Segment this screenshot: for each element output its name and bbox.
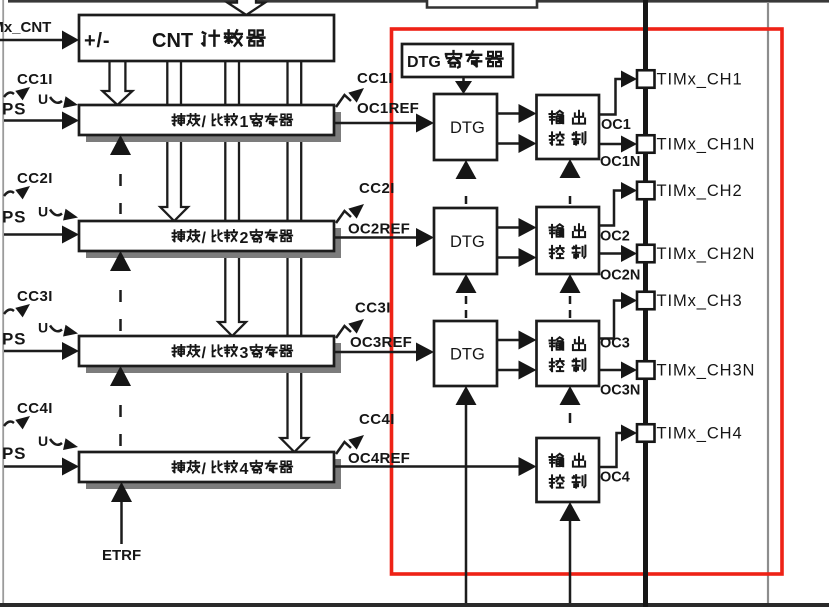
wire PS into register 4 [4, 465, 63, 468]
wire DTG 2 to output control [497, 226, 519, 229]
wire OC4REF register 4 to output control 4 [335, 465, 519, 468]
svg-text:CC3I: CC3I [17, 288, 53, 305]
svg-text:TIMx_CH1: TIMx_CH1 [657, 71, 743, 89]
right page border line [767, 2, 769, 607]
pin TIMx_CH2 [637, 182, 655, 200]
svg-text:/: / [202, 230, 207, 247]
capture/compare register 4 shadow [86, 459, 341, 489]
svg-text:CNT: CNT [152, 30, 193, 52]
U event arrow row 3 [50, 326, 62, 332]
svg-text:OC3N: OC3N [600, 383, 640, 399]
pin TIMx_CH1 [637, 70, 655, 88]
svg-text:CC1I: CC1I [17, 71, 53, 88]
wire DTG 2 to output control [497, 256, 519, 259]
svg-text:U: U [38, 91, 48, 107]
wire DTG 1 to output control [497, 112, 519, 115]
capture/compare register 1 box [79, 105, 334, 135]
wire PS into register 2 [4, 233, 63, 236]
dashed update arrow into register 1 bottom [110, 135, 131, 155]
wire ETRF into register 4 [120, 501, 123, 544]
svg-text:OC2N: OC2N [600, 268, 640, 284]
wire CNT input [0, 39, 63, 42]
svg-text:OC1REF: OC1REF [357, 100, 419, 117]
output control block 4 [537, 438, 600, 502]
svg-text:OC4REF: OC4REF [348, 450, 410, 467]
svg-text:PS: PS [2, 330, 26, 349]
svg-text:OC3: OC3 [600, 336, 630, 352]
svg-text:U: U [38, 433, 48, 449]
svg-text:OC3REF: OC3REF [350, 334, 412, 351]
wire DTG register to DTG 1 [462, 77, 465, 82]
pin TIMx_CH3 [637, 292, 655, 310]
DTG block 1 [434, 94, 497, 160]
dashed control arrow into DTG 2 [456, 274, 477, 293]
wire OC2REF register 2 to DTG [335, 236, 417, 239]
pin TIMx_CH3N [637, 361, 655, 379]
svg-text:PS: PS [2, 208, 26, 227]
bottom crop strip [0, 603, 829, 607]
wire OC to TIMx_CH2N [599, 252, 621, 255]
svg-text:CC1I: CC1I [357, 70, 393, 87]
U event arrow row 2 [50, 210, 62, 216]
svg-text:TIMx_CH2N: TIMx_CH2N [657, 245, 756, 263]
svg-text:TIMx_CH3: TIMx_CH3 [657, 292, 743, 310]
DTG register box [402, 44, 513, 77]
hollow arrow channel 4 from CNT to register 4 [281, 61, 309, 452]
CNT counter box [79, 15, 334, 61]
svg-text:TIMx_CH2: TIMx_CH2 [657, 182, 743, 200]
pin TIMx_CH4 [637, 424, 655, 442]
svg-text:+/-: +/- [84, 30, 110, 52]
wire PS into register 1 [4, 119, 63, 122]
svg-text:CC4I: CC4I [359, 411, 395, 428]
wire DTG 1 to output control [497, 142, 519, 145]
capture/compare register 3 box [79, 336, 334, 366]
wire OC to TIMx_CH3N [599, 369, 621, 372]
cut-off box at top [427, 0, 537, 8]
dashed control arrow into output control 1 [560, 159, 581, 178]
svg-text:/: / [202, 114, 207, 131]
wire PS into register 3 [4, 350, 63, 353]
dashed update arrow into register 3 bottom [110, 366, 131, 386]
zigzag arrow to CC3I (left) [4, 310, 14, 314]
wire DTG 3 to output control [497, 339, 519, 342]
hollow arrow channel 1 from CNT to register 1 [103, 61, 133, 105]
svg-text:2: 2 [240, 230, 249, 247]
output control block 2 [537, 207, 600, 274]
svg-text:DTG: DTG [450, 119, 485, 137]
U event arrow row 1 [50, 97, 62, 103]
output control block 3 [537, 321, 600, 386]
svg-text:CC2I: CC2I [359, 180, 395, 197]
svg-text:DTG: DTG [450, 233, 485, 251]
zigzag arrow register 3 to CC3I [336, 326, 351, 338]
control line into DTG 3 from bottom [456, 386, 477, 405]
capture/compare register 4 box [79, 452, 334, 482]
svg-text:1: 1 [240, 114, 249, 131]
svg-text:U: U [38, 320, 48, 336]
wire OC to TIMx_CH3 [599, 301, 621, 339]
dashed update arrow into register 2 bottom [110, 251, 131, 271]
svg-text:OC1N: OC1N [600, 154, 640, 170]
capture/compare register 2 box [79, 221, 334, 251]
hollow arrow into CNT counter [228, 0, 266, 15]
hollow arrow channel 2 from CNT to register 2 [160, 61, 188, 221]
pin TIMx_CH2N [637, 245, 655, 263]
svg-text:/: / [202, 461, 207, 478]
svg-text:OC1: OC1 [601, 117, 631, 133]
svg-text:U: U [38, 204, 48, 220]
capture/compare register 1 shadow [86, 112, 341, 142]
svg-text:TIMx_CH1N: TIMx_CH1N [657, 136, 756, 154]
svg-text:PS: PS [2, 444, 26, 463]
wire OC to TIMx_CH1 [599, 79, 621, 115]
output control block 1 [537, 95, 600, 159]
svg-text:4: 4 [240, 461, 249, 478]
dashed control arrow into DTG 1 [456, 160, 477, 179]
DTG block 2 [434, 208, 497, 274]
svg-text:OC2: OC2 [600, 229, 630, 245]
capture/compare register 3 shadow [86, 343, 341, 373]
zigzag arrow to CC4I (left) [4, 422, 14, 426]
capture/compare register 2 shadow [86, 228, 341, 258]
svg-text:CC4I: CC4I [17, 400, 53, 417]
zigzag arrow register 2 to CC2I [336, 211, 351, 223]
red highlight rectangle [392, 29, 783, 574]
U event arrow row 4 [50, 439, 62, 445]
control line into output control 4 from bottom [560, 502, 581, 521]
svg-text:TIMx_CH3N: TIMx_CH3N [657, 362, 756, 380]
dashed control arrow into output control 2 [560, 274, 581, 293]
wire OC3REF register 3 to DTG [335, 351, 417, 354]
svg-text:CC2I: CC2I [17, 170, 53, 187]
left page border line [2, 0, 4, 603]
wire OC to TIMx_CH4 [599, 433, 621, 467]
wire OC1REF register 1 to DTG [335, 122, 417, 125]
zigzag arrow to CC1I (left) [4, 93, 14, 97]
wire DTG 3 to output control [497, 369, 519, 372]
svg-text:TIMx_CH4: TIMx_CH4 [657, 425, 743, 443]
DTG block 3 [434, 321, 497, 386]
svg-text:PS: PS [2, 100, 26, 119]
svg-text:TIMx_CNT: TIMx_CNT [0, 19, 51, 36]
svg-text:DTG: DTG [407, 54, 441, 71]
svg-text:CC3I: CC3I [355, 300, 391, 317]
svg-text:OC4: OC4 [600, 470, 630, 486]
svg-text:OC2REF: OC2REF [348, 221, 410, 238]
svg-text:DTG: DTG [450, 346, 485, 364]
svg-text:3: 3 [240, 345, 249, 362]
TIMx channel pin rail [643, 0, 648, 607]
wire OC to TIMx_CH2 [599, 191, 621, 226]
top crop line [8, 0, 829, 3]
zigzag arrow register 4 to CC4I [336, 442, 351, 454]
pin TIMx_CH1N [637, 135, 655, 153]
svg-text:ETRF: ETRF [102, 547, 141, 564]
dashed control arrow into output control 3 [560, 386, 581, 405]
zigzag arrow to CC2I (left) [4, 192, 14, 196]
hollow arrow channel 3 from CNT to register 3 [218, 61, 246, 336]
svg-text:/: / [202, 345, 207, 362]
wire OC to TIMx_CH1N [599, 143, 621, 146]
zigzag arrow register 1 to CC1I [336, 95, 351, 107]
